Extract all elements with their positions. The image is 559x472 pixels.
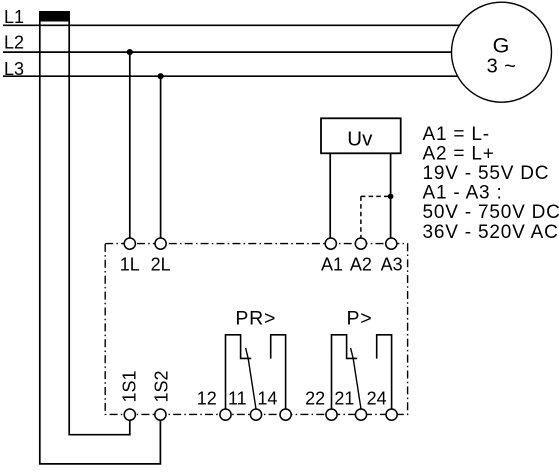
svg-text:L3: L3 — [4, 59, 24, 79]
svg-text:50V - 750V DC: 50V - 750V DC — [423, 202, 559, 223]
svg-text:A2 = L+: A2 = L+ — [423, 143, 495, 164]
svg-text:P>: P> — [347, 308, 373, 330]
svg-text:A1 = L-: A1 = L- — [423, 124, 490, 145]
svg-text:14: 14 — [257, 388, 277, 408]
svg-text:A3: A3 — [381, 254, 403, 274]
svg-text:1S2: 1S2 — [152, 370, 172, 402]
svg-text:L2: L2 — [4, 33, 24, 53]
svg-text:12: 12 — [197, 388, 217, 408]
svg-text:Uv: Uv — [347, 128, 373, 151]
svg-text:A2: A2 — [350, 254, 372, 274]
svg-text:3 ~: 3 ~ — [487, 56, 517, 78]
svg-text:11: 11 — [228, 388, 247, 408]
svg-text:A1: A1 — [321, 254, 343, 274]
svg-text:24: 24 — [367, 388, 387, 408]
svg-text:1S1: 1S1 — [120, 370, 140, 402]
svg-text:19V - 55V DC: 19V - 55V DC — [423, 163, 550, 184]
svg-text:A1 - A3 :: A1 - A3 : — [423, 183, 503, 204]
svg-text:22: 22 — [305, 388, 325, 408]
svg-text:36V - 520V AC: 36V - 520V AC — [423, 222, 559, 243]
svg-text:2L: 2L — [151, 254, 171, 274]
svg-text:L1: L1 — [4, 7, 24, 27]
svg-text:1L: 1L — [120, 254, 140, 274]
svg-text:G: G — [493, 34, 510, 58]
svg-text:PR>: PR> — [235, 308, 276, 330]
svg-text:21: 21 — [334, 388, 354, 408]
